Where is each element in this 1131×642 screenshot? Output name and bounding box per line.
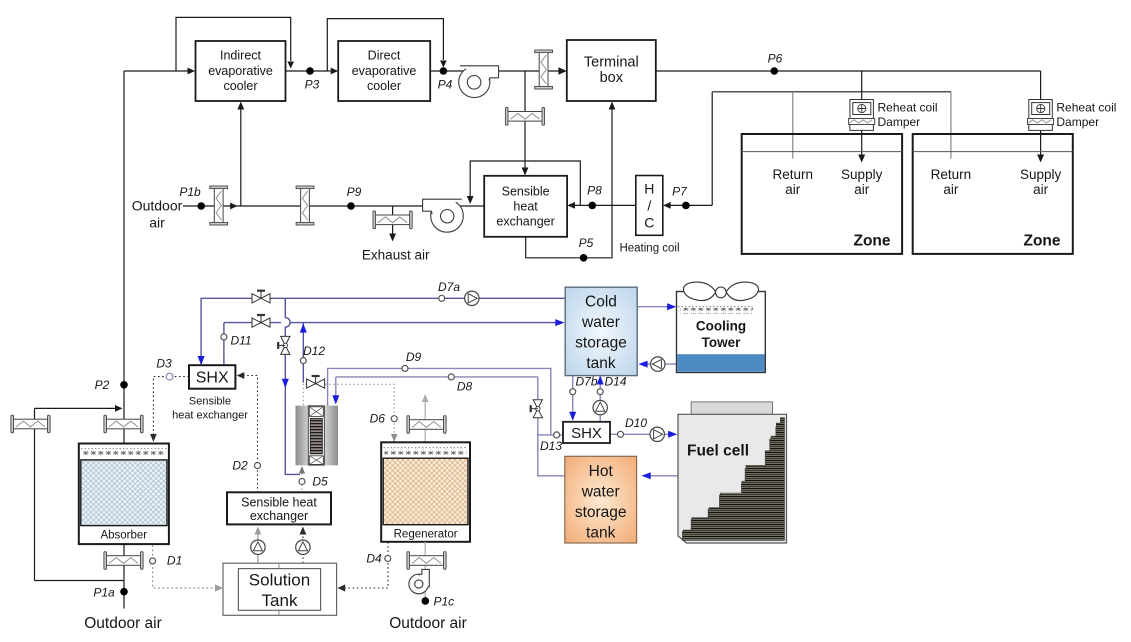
arrow D2 into SHX right (237, 372, 245, 379)
heat exchanger above regenerator (407, 416, 446, 434)
node D6 (391, 416, 397, 422)
node P5 (580, 254, 588, 262)
pipe: D7b drop (572, 376, 574, 412)
regenerator exhaust line grey (424, 397, 426, 443)
svg-text:Cold: Cold (585, 294, 617, 311)
svg-text:SHX: SHX (196, 370, 229, 387)
heat exchanger exhaust (373, 211, 412, 229)
svg-text:Reheat coil: Reheat coil (878, 101, 938, 115)
pump on tower return (651, 357, 665, 371)
blue arrow into SHX top (198, 356, 205, 365)
svg-text:Zone: Zone (1023, 233, 1060, 250)
SEC_AIR_TOP (124, 17, 1041, 71)
arrow pump A into SHE2 (255, 527, 262, 535)
wire: exhaust drop (392, 206, 394, 240)
cooling tower (677, 282, 766, 372)
wire: zone1 return drop (792, 92, 794, 159)
blue arrow D12 up into line2 (300, 323, 307, 332)
arrow D1 into tank (215, 584, 223, 591)
svg-text:D13: D13 (540, 439, 562, 453)
node D10 (618, 431, 624, 437)
svg-text:Damper: Damper (1056, 115, 1099, 129)
svg-text:D1: D1 (167, 554, 182, 568)
pipe: D10 line to fuel cell (610, 433, 672, 435)
svg-text:storage: storage (575, 504, 627, 521)
direct evaporative cooler box (338, 41, 430, 101)
SEC_LEFT (35, 71, 125, 609)
svg-text:P8: P8 (587, 184, 602, 198)
svg-text:Return: Return (773, 167, 814, 182)
svg-text:D9: D9 (406, 350, 422, 364)
blue arrow into fuel cell (668, 431, 677, 438)
svg-text:Hot: Hot (589, 463, 614, 480)
blue arrow into cold tank from tower (638, 361, 647, 368)
svg-text:D8: D8 (457, 380, 473, 394)
svg-text:Supply: Supply (1020, 167, 1062, 182)
SEC_WATER (538, 307, 678, 476)
svg-text:Damper: Damper (878, 115, 921, 129)
wire: DEC water loop 2 (327, 19, 443, 71)
svg-text:Exhaust air: Exhaust air (362, 248, 430, 263)
SEC_DESICCANT (201, 298, 565, 474)
wire: return riser to P7 (711, 92, 713, 206)
sensor line D1 to solution tank (153, 545, 219, 588)
pipe: V5 drop line D8 to hot tank (538, 377, 565, 476)
svg-text:Tower: Tower (702, 335, 741, 350)
fan F1 supply fan (459, 66, 499, 98)
svg-text:Terminal: Terminal (584, 55, 639, 71)
svg-text:Heating coil: Heating coil (619, 243, 679, 255)
heat exchanger HX2 (296, 186, 314, 225)
node P4 (440, 67, 448, 75)
svg-text:Absorber: Absorber (100, 530, 147, 542)
wire: left bypass loop horizontal top (35, 407, 117, 409)
blue arrow D14 into cold tank (597, 375, 604, 384)
arrow into SHE right (567, 202, 575, 209)
wire: left bypass loop bottom (35, 580, 125, 582)
svg-text:Supply: Supply (841, 167, 883, 182)
svg-text:Tank: Tank (262, 591, 298, 610)
svg-text:Direct: Direct (368, 49, 401, 63)
svg-text:D10: D10 (625, 416, 647, 430)
pipe: V3 branch from line1 with hop over line2 (285, 298, 290, 337)
svg-text:D4: D4 (366, 552, 382, 566)
heat exchanger above absorber (104, 415, 143, 433)
svg-text:D5: D5 (312, 475, 328, 489)
svg-text:heat: heat (513, 200, 538, 214)
regenerator column (381, 442, 470, 542)
wire: SHE bypass rail (470, 161, 580, 205)
svg-text:D14: D14 (604, 375, 626, 389)
wire: left main vertical from supply corner to absorber (123, 71, 125, 444)
sensor line D4 dotted to tank (342, 542, 388, 588)
pipe: cooling water line 2 to cold tank (224, 323, 281, 365)
node P8 (589, 202, 597, 210)
svg-text:air: air (149, 215, 165, 231)
node D5 (299, 479, 305, 485)
sensible heat exchanger box (air) (484, 176, 567, 237)
svg-text:P9: P9 (347, 185, 362, 199)
sensor line D5 to SHE2 (301, 485, 303, 493)
arrow up into terminal box bottom (609, 102, 616, 110)
svg-text:P1c: P1c (434, 595, 455, 609)
node D1 (150, 558, 156, 564)
pump B (296, 540, 310, 554)
arrow after HX1 (230, 203, 238, 210)
blue arrow into cooling tower (667, 303, 676, 310)
pump A line grey (257, 530, 259, 563)
arrow zone2 supply (1037, 155, 1044, 163)
SHX2 box (563, 422, 610, 443)
wire: exhaust air line from outdoor intake (183, 205, 484, 207)
arrow D4 into tank right (338, 584, 346, 591)
svg-text:P5: P5 (579, 236, 594, 250)
wire: left bypass loop vertical (34, 408, 36, 580)
arrow exhaust down (389, 234, 396, 242)
svg-text:D7b: D7b (575, 375, 597, 389)
pipe: D12 branch (302, 323, 304, 383)
node D4 (385, 556, 391, 562)
wire: zone2 return drop (950, 92, 952, 159)
regenerator air line grey (424, 542, 426, 605)
wire: riser to IEC bottom (240, 108, 242, 206)
svg-text:P6: P6 (768, 52, 783, 66)
svg-text:Sensible: Sensible (189, 396, 231, 408)
svg-text:air: air (854, 182, 870, 197)
svg-text:tank: tank (586, 525, 616, 542)
heating coil H/C box (636, 176, 663, 236)
solution tank (223, 563, 337, 615)
blue arrow into hot tank from fuel cell (642, 472, 651, 479)
sensor line D3 from SHX to absorber (153, 377, 189, 437)
pipe: D14 rise (599, 381, 601, 422)
svg-text:P4: P4 (438, 78, 453, 92)
wire: P5 line SHE to terminal box (526, 109, 612, 258)
hot water storage tank (565, 456, 637, 543)
arrow up into IEC bottom (237, 102, 244, 110)
sensor line D12 to column dotted grey (302, 384, 304, 405)
valve V4 on D6 sensor line (307, 376, 325, 388)
svg-text:P1b: P1b (179, 185, 201, 199)
fuel cell (678, 402, 787, 543)
wire: IEC outlet to DEC (286, 70, 331, 72)
svg-text:Reheat coil: Reheat coil (1056, 101, 1116, 115)
node P9 (347, 202, 355, 210)
svg-text:D7a: D7a (438, 280, 460, 294)
wire: SHE top feed from supply line (524, 71, 526, 174)
svg-text:P1a: P1a (93, 586, 115, 600)
valve on line 2 (252, 315, 270, 327)
wire: IEC water loop 1 (176, 17, 291, 71)
svg-text:Outdoor air: Outdoor air (389, 615, 467, 632)
wire: zone2 supply drop (1040, 71, 1042, 100)
svg-text:exchanger: exchanger (250, 509, 308, 523)
arrow into SHE top (522, 168, 529, 176)
node P1c (422, 597, 430, 605)
svg-text:water: water (581, 484, 620, 501)
svg-text:P7: P7 (672, 185, 688, 199)
svg-text:P2: P2 (95, 378, 110, 392)
node D13 (554, 432, 560, 438)
node D3 (166, 373, 173, 380)
svg-text:storage: storage (575, 335, 627, 352)
reheat coil and damper unit zone2 (1028, 100, 1054, 131)
valve V3 vertical (278, 336, 290, 354)
arrow into DEC (331, 68, 339, 75)
pump on D10 line (650, 427, 664, 441)
heat exchanger HX supply vertical (535, 50, 553, 89)
pipe: cooling tower to cold tank (644, 363, 677, 365)
blue arrow line2 into cold tank (555, 319, 564, 326)
heat exchanger below absorber (104, 552, 143, 570)
svg-text:Zone: Zone (853, 233, 890, 250)
svg-text:D6: D6 (370, 412, 386, 426)
arrow D3 into absorber top (150, 434, 157, 442)
svg-text:air: air (943, 182, 959, 197)
svg-text:Regenerator: Regenerator (394, 529, 458, 541)
pipe: cooling water line 1 to cold tank (201, 298, 565, 364)
arrow loop1 down (287, 62, 294, 69)
svg-text:D11: D11 (230, 334, 251, 348)
sensible heat exchanger box (solution) (227, 492, 331, 524)
pump A (251, 540, 265, 554)
heat exchanger HX1 on outdoor intake (210, 186, 228, 225)
node P2 (120, 381, 128, 389)
svg-text:Return: Return (931, 167, 972, 182)
absorber column (79, 444, 169, 545)
packed column heat exchanger (296, 406, 339, 466)
heat exchanger on left bypass (11, 415, 50, 433)
zone 2 box (913, 134, 1073, 254)
terminal box (567, 40, 656, 101)
wire: P8 line H/C to SHE (575, 204, 636, 206)
svg-text:H: H (644, 181, 654, 197)
arrow up into column bottom (299, 466, 305, 474)
node D14 (597, 389, 603, 395)
svg-text:Outdoor: Outdoor (132, 198, 183, 214)
arrow loop2 down (440, 61, 447, 68)
SHX desiccant heat exchanger box (189, 365, 235, 389)
svg-text:Indirect: Indirect (220, 49, 262, 63)
svg-text:heat exchanger: heat exchanger (172, 410, 248, 422)
arrow into IEC (188, 68, 196, 75)
wire: zone1 supply drop (861, 71, 863, 100)
node P6 (771, 67, 779, 75)
svg-text:P3: P3 (305, 78, 320, 92)
wire: P7 line to H/C (670, 204, 712, 206)
svg-text:exchanger: exchanger (496, 215, 554, 229)
pump B line dotted (302, 529, 304, 563)
wire: main supply line entry to IEC (124, 70, 188, 72)
pipe from V3 up into column bottom (301, 468, 303, 474)
wire: DEC outlet to terminal box (430, 70, 559, 72)
pump on D7a line (465, 291, 479, 305)
svg-text:tank: tank (586, 355, 616, 372)
svg-text:air: air (1033, 182, 1049, 197)
fan F3 regenerator fan (409, 569, 429, 593)
wire: return air rail (712, 91, 951, 93)
blue arrow D8 into column (332, 395, 339, 404)
arrow into terminal box (558, 67, 566, 75)
svg-text:evaporative: evaporative (352, 64, 417, 78)
blue arrow on V3 branch (282, 379, 289, 388)
svg-text:D2: D2 (232, 459, 248, 473)
heat exchanger below regenerator (407, 552, 446, 570)
node P7 (682, 202, 690, 210)
SEC_MID (183, 71, 712, 258)
sensor line D2 dotted (243, 376, 258, 493)
node P1b (197, 202, 205, 210)
svg-text:Sensible heat: Sensible heat (241, 496, 317, 510)
node D9 (402, 365, 408, 371)
fan F2 exhaust fan (423, 199, 464, 232)
pipe D8 into column (336, 376, 538, 378)
arrow pump B into SHE2 (300, 527, 307, 535)
valve on line 1 (252, 291, 270, 303)
arrow zone1 supply (858, 155, 865, 163)
node D11 (221, 334, 227, 340)
blue arrow D7b into SHX2 (569, 412, 576, 421)
svg-text:D12: D12 (303, 344, 325, 358)
heat exchanger above SHE (505, 108, 544, 126)
node P3 (306, 67, 314, 75)
wire: terminal box to zones supply main (656, 70, 1041, 72)
pipe: cold tank to cooling tower (637, 306, 671, 308)
svg-text:/: / (647, 198, 651, 214)
svg-text:Sensible: Sensible (502, 185, 550, 199)
svg-text:C: C (644, 215, 654, 231)
zone 1 box (742, 134, 902, 254)
arrow D6 into regenerator (391, 434, 398, 442)
svg-text:Solution: Solution (249, 571, 310, 590)
pipe D9 from column (328, 368, 551, 435)
svg-text:cooler: cooler (367, 79, 401, 93)
pipe: D13 link (538, 434, 563, 436)
wire: absorber bottom to outdoor air (123, 544, 125, 608)
svg-text:air: air (785, 182, 801, 197)
svg-text:Cooling: Cooling (696, 319, 746, 334)
node D12 (300, 358, 306, 364)
node D7a (439, 295, 445, 301)
node D2 (255, 463, 261, 469)
reheat coil and damper unit zone1 (849, 100, 875, 131)
arrow regenerator exhaust up (422, 394, 429, 402)
svg-text:water: water (581, 314, 620, 331)
svg-text:Outdoor air: Outdoor air (84, 615, 162, 632)
indirect evaporative cooler box (196, 41, 286, 101)
svg-text:Fuel cell: Fuel cell (687, 443, 749, 460)
valve V5 vertical (531, 400, 543, 418)
node D7b (570, 389, 576, 395)
cold water storage tank (565, 287, 637, 375)
arrow bypass into main vertical (115, 405, 123, 412)
node D8 (448, 374, 454, 380)
svg-text:box: box (600, 70, 624, 86)
svg-text:SHX: SHX (571, 425, 602, 442)
arrow bypass onto exhaust line (467, 196, 474, 204)
sensor line to D6 dotted grey (306, 383, 325, 385)
pump on D14 line (593, 400, 607, 414)
svg-text:cooler: cooler (223, 79, 257, 93)
arrow into H/C right (663, 202, 671, 209)
node P1a (120, 588, 128, 596)
svg-text:evaporative: evaporative (208, 64, 273, 78)
pipe: fuel cell to hot tank (647, 475, 678, 477)
svg-text:D3: D3 (156, 357, 172, 371)
